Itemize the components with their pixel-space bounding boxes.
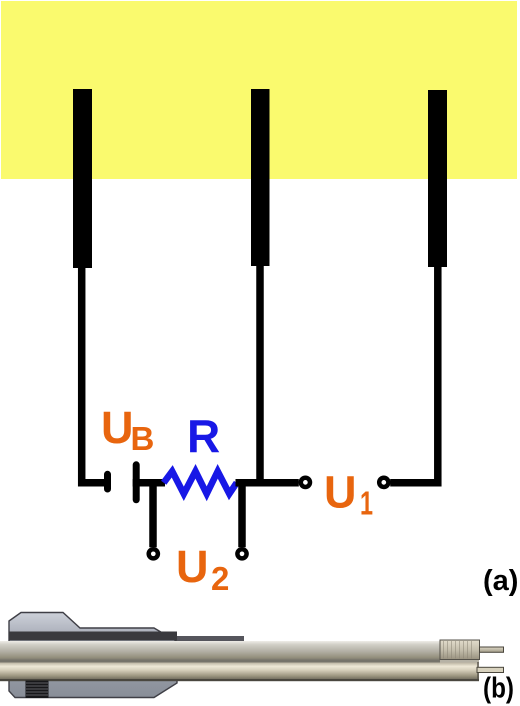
electrode probe 1 (left) [73,89,92,268]
battery UB positive plate [133,465,140,500]
ceramic tube upper [0,641,440,660]
tube seam [0,660,440,663]
electrode probe 3 (right) [428,90,447,267]
tube bottom outline [0,679,479,681]
svg-text:R: R [187,410,220,462]
wire: stub down to U2 left terminal [149,483,157,548]
svg-text:(a): (a) [483,565,518,597]
battery UB negative plate [104,474,111,489]
upper electrode pin [480,647,504,652]
lower tube end face [477,662,479,679]
svg-text:(b): (b) [483,673,514,705]
terminal U1 right (open circle) [379,478,388,487]
wire: stub down to U2 right terminal [238,483,246,548]
set screw [26,681,49,699]
wire: battery to resistor [133,479,165,487]
dark strip extension [177,636,244,641]
svg-text:U: U [176,541,209,592]
svg-text:U: U [101,402,134,453]
terminal U1 left (open circle) [301,478,310,487]
ceramic tube lower [0,663,479,680]
ribbed collar [440,640,480,660]
terminal U2 left (open circle) [149,549,158,558]
holder dark band [9,632,177,641]
wire: resistor to U1 left terminal [236,479,299,487]
svg-text:B: B [131,420,155,457]
probe holder block (grey fitting) [9,613,177,698]
wire: electrode 3 lead to U1 right terminal [390,265,438,483]
svg-text:2: 2 [211,560,229,597]
svg-text:1: 1 [360,485,373,522]
flame / measurement region [1,1,517,179]
wire: electrode 1 lead to battery [82,266,104,483]
wire: electrode 2 lead [256,264,264,482]
terminal U2 right (open circle) [237,549,246,558]
resistor R zigzag [164,471,237,494]
svg-text:U: U [324,467,357,518]
electrode probe 2 (middle) [251,89,270,266]
lower electrode pin [477,667,504,672]
